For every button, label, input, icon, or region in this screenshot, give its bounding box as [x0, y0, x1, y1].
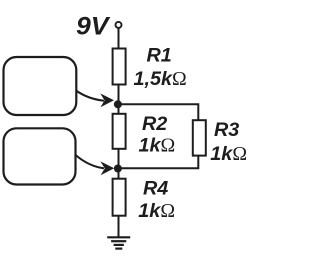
terminal 9V	[116, 22, 122, 28]
svg-text:1kΩ: 1kΩ	[210, 143, 247, 165]
arrow from box 1 to node A	[76, 91, 114, 108]
wire node A to R3	[119, 104, 199, 120]
callout box 1	[4, 57, 77, 115]
callout box 2	[4, 128, 76, 184]
svg-text:R4: R4	[143, 178, 168, 200]
arrow from box 2 to node B	[75, 155, 114, 176]
svg-text:1kΩ: 1kΩ	[139, 134, 176, 156]
svg-text:1kΩ: 1kΩ	[138, 200, 175, 222]
wire R3 to node B	[119, 156, 199, 169]
ground	[107, 237, 130, 248]
node B (junction dot)	[114, 165, 122, 173]
resistor R2	[113, 114, 126, 149]
wire R1 to R2	[118, 85, 120, 115]
svg-text:R2: R2	[142, 113, 167, 135]
node A (junction dot)	[114, 100, 122, 108]
wire terminal to R1	[118, 28, 120, 49]
resistor R4	[113, 179, 126, 216]
wire R4 to ground	[118, 216, 120, 237]
resistor R3	[193, 120, 206, 155]
svg-text:1,5kΩ: 1,5kΩ	[134, 68, 187, 90]
svg-text:R3: R3	[214, 119, 239, 141]
wire R2 to R4	[118, 149, 120, 179]
resistor R1	[113, 49, 126, 85]
svg-text:R1: R1	[147, 45, 172, 67]
svg-text:9V: 9V	[76, 13, 111, 41]
